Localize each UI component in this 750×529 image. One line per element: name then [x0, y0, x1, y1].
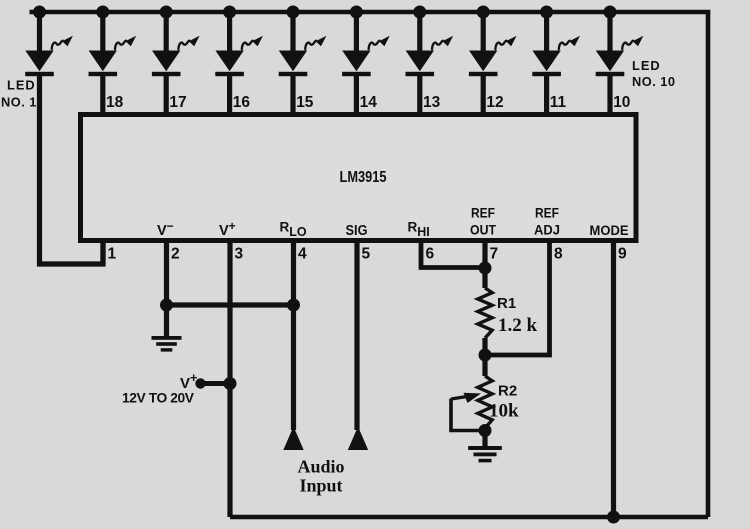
wire: pin 9 (MODE) down to bottom bus — [611, 241, 616, 518]
resistor R1 — [478, 288, 492, 338]
wire: LED8 cathode to IC pin 12 — [481, 74, 486, 115]
wire: right-side bus (top rail to bottom rail) — [706, 12, 711, 517]
wire: pin 1 stub — [100, 241, 105, 265]
wire: wiper return to bottom of R2 — [451, 399, 485, 431]
junction: on pin 4 wire — [287, 299, 300, 312]
svg-text:4: 4 — [298, 246, 307, 263]
junction: LED 8 anode on top rail — [477, 6, 490, 19]
wire: LED3 cathode to IC pin 17 — [164, 74, 169, 115]
wire: V+ terminal lead — [201, 381, 230, 386]
wire: pin 3 (V+) down to bottom bus — [227, 241, 232, 518]
svg-text:6: 6 — [426, 246, 435, 263]
IC U1 LM3915 body — [81, 115, 637, 241]
junction: LED 1 anode on top rail — [33, 6, 46, 19]
svg-text:1: 1 — [108, 246, 117, 263]
wire: bottom bus (pin 3 V+ line to right bus) — [230, 515, 708, 520]
svg-text:SIG: SIG — [346, 223, 368, 239]
svg-text:R2: R2 — [498, 383, 517, 400]
svg-text:NO. 10: NO. 10 — [632, 74, 676, 89]
junction: pin 9 on bottom bus — [607, 511, 620, 524]
junction: R1/R2/REF ADJ node — [479, 349, 492, 362]
LED D6 — [342, 12, 390, 76]
junction: LED 3 anode on top rail — [160, 6, 173, 19]
svg-text:10: 10 — [613, 94, 630, 111]
svg-text:OUT: OUT — [470, 222, 496, 238]
junction: R2 bottom / wiper — [479, 424, 492, 437]
LED D8 — [469, 12, 517, 76]
svg-text:11: 11 — [550, 94, 567, 111]
LED D7 — [406, 12, 454, 76]
wire: LED5 cathode to IC pin 15 — [290, 74, 295, 115]
wire: ground node across to pin 4 wire — [167, 302, 294, 307]
terminal: V+ supply — [195, 378, 205, 388]
wire: top LED supply rail — [30, 10, 711, 15]
wire: R1 lower lead — [482, 338, 487, 376]
wire: LED4 cathode to IC pin 16 — [227, 74, 232, 115]
svg-text:ADJ: ADJ — [534, 222, 560, 238]
ground symbol (R2) — [468, 446, 502, 462]
svg-text:R1: R1 — [497, 295, 516, 312]
svg-text:Input: Input — [299, 476, 342, 496]
svg-text:12V TO 20V: 12V TO 20V — [122, 391, 195, 406]
junction: pin 2 / ground node — [160, 299, 173, 312]
wire: LED1 cathode down left side, over to pin 1 — [40, 74, 104, 264]
wire: LED2 cathode to IC pin 18 — [100, 74, 105, 115]
svg-text:13: 13 — [423, 94, 441, 111]
junction: LED 6 anode on top rail — [350, 6, 363, 19]
svg-text:REF: REF — [471, 205, 495, 221]
LED D10 — [596, 12, 644, 76]
svg-text:1.2 k: 1.2 k — [498, 315, 538, 336]
wire: pin 6 (RHI) jog to REF OUT node — [421, 241, 485, 268]
audio input arrow (pin 5) — [348, 427, 368, 451]
svg-text:9: 9 — [618, 246, 627, 263]
LED D9 — [532, 12, 580, 76]
LED D2 — [89, 12, 137, 76]
junction: LED 7 anode on top rail — [413, 6, 426, 19]
LED D3 — [152, 12, 200, 76]
junction: pin 7 / pin 6 node — [479, 262, 492, 275]
svg-text:12: 12 — [486, 94, 503, 111]
ground symbol (V-) — [152, 336, 182, 352]
svg-text:3: 3 — [235, 246, 244, 263]
svg-text:Audio: Audio — [297, 457, 344, 477]
svg-text:LED: LED — [7, 78, 36, 93]
svg-text:MODE: MODE — [590, 222, 629, 238]
svg-text:14: 14 — [360, 94, 378, 111]
svg-text:18: 18 — [106, 94, 124, 111]
svg-text:LED: LED — [632, 58, 661, 73]
wire: LED10 cathode to IC pin 10 — [607, 74, 612, 115]
svg-text:LM3915: LM3915 — [340, 169, 387, 186]
junction: LED 4 anode on top rail — [223, 6, 236, 19]
svg-text:17: 17 — [169, 94, 186, 111]
audio input arrow (pin 4) — [283, 427, 303, 451]
junction: LED 5 anode on top rail — [287, 6, 300, 19]
junction: LED 10 anode on top rail — [604, 6, 617, 19]
junction: V+ supply tap on pin 3 wire — [224, 377, 237, 390]
svg-text:15: 15 — [296, 94, 314, 111]
svg-text:5: 5 — [362, 246, 371, 263]
svg-text:8: 8 — [554, 246, 563, 263]
svg-text:7: 7 — [490, 246, 499, 263]
wire: node to pin 8 (REF ADJ) — [485, 241, 550, 356]
junction: LED 9 anode on top rail — [540, 6, 553, 19]
wire: LED6 cathode to IC pin 14 — [354, 74, 359, 115]
LED D5 — [279, 12, 327, 76]
wire: pin 5 (SIG) down to audio input — [354, 241, 359, 431]
wire: LED7 cathode to IC pin 13 — [417, 74, 422, 115]
LED D1 — [25, 12, 73, 76]
wire: R2 bottom lead — [482, 428, 487, 447]
R2 wiper arrow — [451, 397, 467, 400]
svg-text:10k: 10k — [489, 401, 519, 422]
svg-text:NO. 1: NO. 1 — [1, 95, 37, 110]
wire: pin 7 (REF OUT) stub — [482, 241, 487, 289]
wire: pin 4 (RLO) down to audio input — [291, 241, 296, 431]
wire: pin 2 (V-) down to ground node — [164, 241, 169, 306]
junction: LED 2 anode on top rail — [96, 6, 109, 19]
wire: ground stem under pin 2 — [164, 305, 169, 337]
svg-text:16: 16 — [233, 94, 251, 111]
svg-text:2: 2 — [171, 246, 180, 263]
potentiometer R2 — [478, 376, 492, 428]
wire: LED9 cathode to IC pin 11 — [544, 74, 549, 115]
LED D4 — [215, 12, 263, 76]
svg-text:REF: REF — [535, 205, 559, 221]
